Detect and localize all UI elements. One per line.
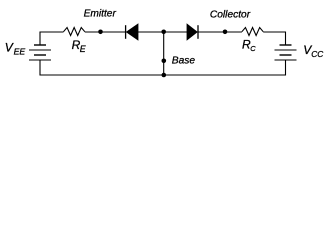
node base bottom junction dot	[162, 73, 167, 78]
wire top rail middle segment	[85, 31, 242, 33]
diode D1 triangle	[126, 23, 139, 41]
diode D2 triangle	[187, 23, 198, 41]
battery VCC plate short top	[280, 44, 292, 46]
wire right battery bottom stub	[285, 60, 287, 76]
resistor RE zigzag	[64, 28, 85, 36]
svg-text:Collector: Collector	[210, 10, 251, 21]
svg-text:CC: CC	[311, 49, 324, 59]
node emitter dot	[98, 30, 103, 35]
battery VCC plate long upper	[275, 49, 297, 51]
diode D2 cathode bar	[197, 25, 199, 39]
svg-text:EE: EE	[14, 46, 26, 56]
battery VEE plate short top	[34, 44, 46, 46]
svg-text:E: E	[80, 44, 86, 54]
label RE	[72, 38, 86, 54]
node base top junction dot	[161, 30, 166, 35]
battery VEE plate long bottom	[29, 59, 51, 61]
battery VCC plate long bottom	[275, 59, 297, 61]
battery VCC plate short lower	[280, 54, 292, 56]
resistor RC zigzag	[242, 28, 263, 36]
svg-text:Emitter: Emitter	[84, 8, 117, 19]
wire bottom rail	[40, 74, 286, 76]
wire base vertical	[163, 32, 165, 75]
battery VEE plate long upper	[29, 49, 51, 51]
battery VEE plate short lower	[34, 54, 46, 56]
svg-text:C: C	[250, 44, 256, 53]
label VEE	[5, 41, 26, 57]
diode D1 cathode bar	[125, 25, 127, 39]
label RC	[242, 37, 256, 52]
node collector dot	[223, 30, 228, 35]
svg-text:Base: Base	[172, 56, 196, 67]
wire top rail left segment	[40, 32, 64, 45]
node base mid dot	[162, 59, 167, 64]
wire top rail right segment	[263, 32, 285, 45]
svg-text:V: V	[5, 41, 14, 55]
label VCC	[303, 43, 324, 59]
wire left battery bottom stub	[39, 60, 41, 76]
